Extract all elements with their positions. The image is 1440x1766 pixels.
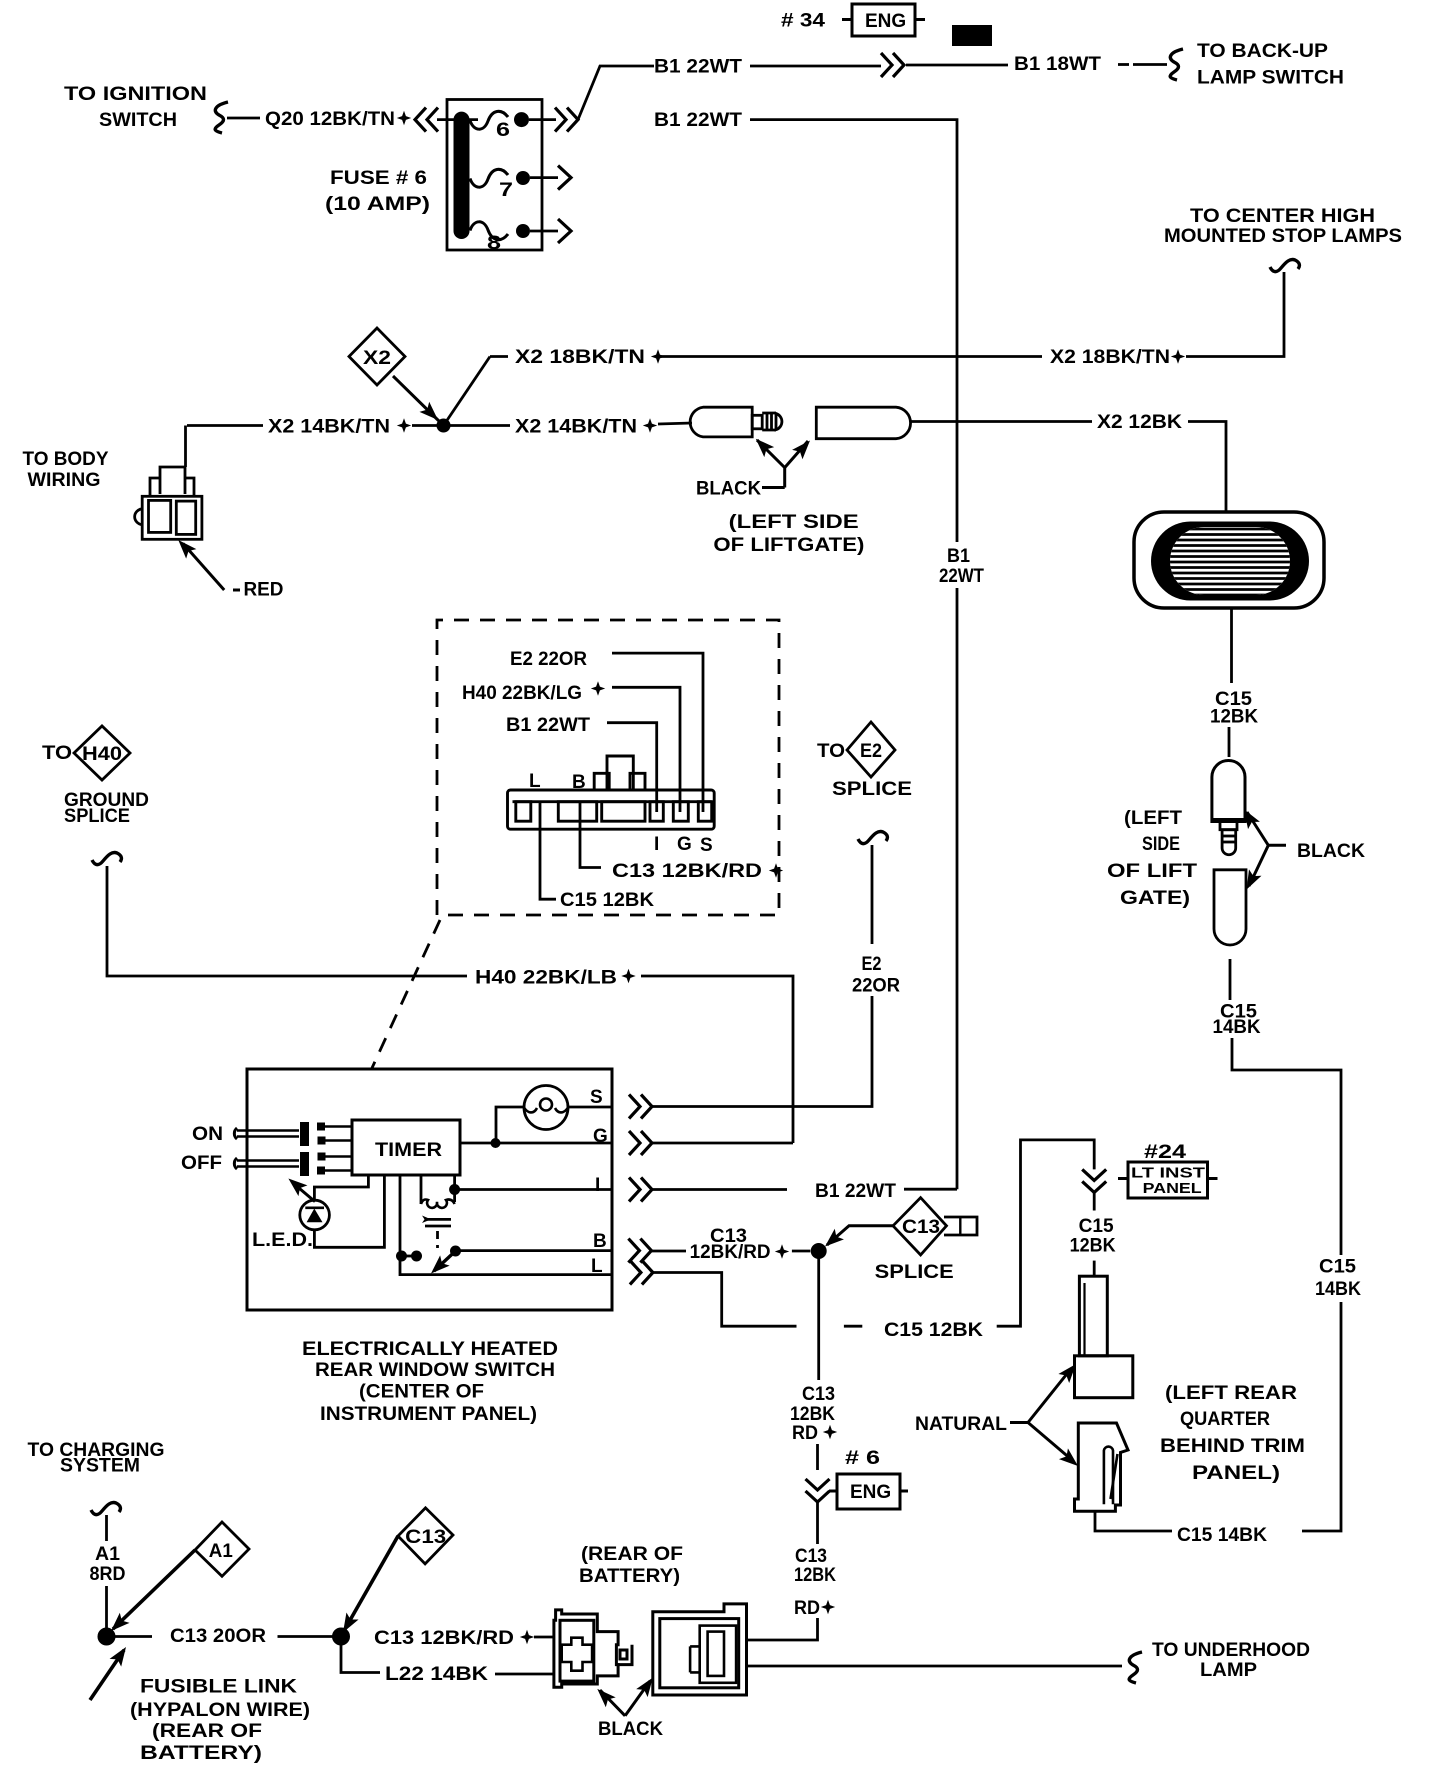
svg-text:OFF: OFF — [181, 1153, 222, 1174]
svg-text:PANEL): PANEL) — [1192, 1463, 1280, 1484]
svg-text:FUSIBLE LINK: FUSIBLE LINK — [140, 1677, 297, 1698]
svg-text:B: B — [593, 1231, 607, 1252]
svg-text:B1 18WT: B1 18WT — [1014, 54, 1101, 75]
svg-text:#24: #24 — [1144, 1142, 1187, 1163]
svg-text:C13 20OR: C13 20OR — [170, 1626, 266, 1647]
svg-text:TIMER: TIMER — [375, 1140, 442, 1161]
svg-text:BATTERY): BATTERY) — [579, 1566, 680, 1587]
svg-text:SYSTEM: SYSTEM — [60, 1456, 140, 1477]
svg-text:BLACK: BLACK — [696, 479, 761, 500]
svg-text:S: S — [700, 835, 713, 856]
svg-text:ELECTRICALLY HEATED: ELECTRICALLY HEATED — [302, 1339, 558, 1360]
svg-text:12BK: 12BK — [790, 1404, 835, 1425]
svg-text:X2 18BK/TN: X2 18BK/TN — [1050, 347, 1170, 368]
svg-text:SPLICE: SPLICE — [875, 1262, 954, 1283]
svg-text:BEHIND TRIM: BEHIND TRIM — [1160, 1436, 1305, 1457]
svg-text:C13: C13 — [405, 1527, 446, 1548]
svg-text:QUARTER: QUARTER — [1180, 1409, 1270, 1430]
svg-text:E2 22OR: E2 22OR — [510, 649, 587, 670]
svg-text:I: I — [654, 834, 659, 855]
svg-text:12BK: 12BK — [1210, 707, 1258, 728]
svg-text:C13: C13 — [802, 1384, 835, 1405]
svg-text:OF LIFTGATE): OF LIFTGATE) — [713, 535, 864, 556]
svg-text:TO IGNITION: TO IGNITION — [64, 84, 207, 105]
svg-text:BATTERY): BATTERY) — [140, 1743, 262, 1764]
svg-text:ENG: ENG — [850, 1482, 891, 1503]
svg-text:BLACK: BLACK — [598, 1719, 663, 1740]
svg-text:A1: A1 — [209, 1541, 233, 1562]
svg-text:(CENTER OF: (CENTER OF — [359, 1382, 484, 1403]
svg-text:B1 22WT: B1 22WT — [654, 110, 742, 131]
svg-text:TO CENTER HIGH: TO CENTER HIGH — [1190, 206, 1375, 227]
svg-text:8: 8 — [487, 233, 501, 254]
svg-text:TO BACK-UP: TO BACK-UP — [1197, 41, 1328, 62]
svg-text:6: 6 — [496, 120, 510, 141]
svg-text:C15: C15 — [1319, 1257, 1356, 1278]
svg-text:TO UNDERHOOD: TO UNDERHOOD — [1152, 1640, 1310, 1661]
svg-text:SPLICE: SPLICE — [832, 779, 912, 800]
svg-text:A1: A1 — [95, 1544, 120, 1565]
svg-text:(10 AMP): (10 AMP) — [325, 194, 430, 215]
svg-text:RD: RD — [794, 1598, 820, 1619]
svg-text:8RD: 8RD — [90, 1564, 126, 1585]
svg-text:ENG: ENG — [865, 11, 906, 32]
svg-text:B1 22WT: B1 22WT — [506, 715, 590, 736]
svg-text:TO: TO — [817, 741, 845, 762]
svg-text:SWITCH: SWITCH — [99, 110, 177, 131]
svg-text:TO BODY: TO BODY — [23, 449, 109, 470]
svg-text:E2: E2 — [860, 741, 882, 762]
svg-text:H40 22BK/LG: H40 22BK/LG — [462, 683, 582, 704]
svg-text:(LEFT REAR: (LEFT REAR — [1165, 1383, 1297, 1404]
svg-text:X2 14BK/TN: X2 14BK/TN — [515, 417, 637, 438]
svg-text:(LEFT: (LEFT — [1124, 808, 1182, 829]
svg-text:PANEL: PANEL — [1143, 1180, 1202, 1197]
svg-text:X2: X2 — [363, 348, 391, 369]
svg-text:TO: TO — [42, 743, 72, 764]
svg-text:SPLICE: SPLICE — [64, 806, 130, 827]
svg-text:GATE): GATE) — [1120, 888, 1190, 909]
svg-text:22OR: 22OR — [852, 976, 900, 997]
svg-text:ON: ON — [192, 1124, 223, 1145]
svg-text:7: 7 — [499, 180, 513, 201]
svg-text:C13 12BK/RD: C13 12BK/RD — [612, 861, 762, 882]
svg-text:Q20 12BK/TN: Q20 12BK/TN — [265, 109, 395, 130]
svg-text:REAR WINDOW SWITCH: REAR WINDOW SWITCH — [315, 1360, 555, 1381]
svg-text:(REAR OF: (REAR OF — [152, 1721, 262, 1742]
svg-text:(LEFT SIDE: (LEFT SIDE — [729, 512, 859, 533]
svg-text:L: L — [591, 1256, 603, 1277]
svg-text:12BK/RD: 12BK/RD — [690, 1242, 771, 1263]
svg-text:BLACK: BLACK — [1297, 841, 1365, 862]
svg-text:C13 12BK/RD: C13 12BK/RD — [374, 1628, 514, 1649]
svg-text:12BK: 12BK — [1070, 1236, 1116, 1257]
svg-text:X2 18BK/TN: X2 18BK/TN — [515, 347, 645, 368]
svg-text:LAMP SWITCH: LAMP SWITCH — [1197, 68, 1344, 89]
svg-text:C15 12BK: C15 12BK — [560, 890, 654, 911]
svg-text:LAMP: LAMP — [1200, 1660, 1257, 1681]
svg-text:H40 22BK/LB: H40 22BK/LB — [475, 968, 617, 989]
svg-text:X2 12BK: X2 12BK — [1097, 412, 1182, 433]
svg-text:C13: C13 — [902, 1217, 940, 1238]
svg-text:RD: RD — [792, 1423, 818, 1444]
svg-text:SIDE: SIDE — [1142, 834, 1180, 855]
svg-text:L.E.D.: L.E.D. — [252, 1230, 313, 1251]
svg-text:MOUNTED STOP LAMPS: MOUNTED STOP LAMPS — [1164, 226, 1402, 247]
svg-text:B1 22WT: B1 22WT — [815, 1181, 896, 1202]
svg-text:B: B — [572, 772, 586, 793]
svg-text:(REAR OF: (REAR OF — [581, 1544, 683, 1565]
svg-text:E2: E2 — [862, 954, 882, 975]
svg-text:S: S — [590, 1087, 603, 1108]
svg-text:FUSE # 6: FUSE # 6 — [330, 168, 427, 189]
svg-text:14BK: 14BK — [1315, 1279, 1361, 1300]
svg-text:L: L — [529, 771, 541, 792]
svg-text:G: G — [593, 1126, 608, 1147]
svg-text:OF LIFT: OF LIFT — [1107, 861, 1197, 882]
svg-text:H40: H40 — [82, 744, 122, 765]
svg-text:14BK: 14BK — [1213, 1017, 1261, 1038]
svg-text:C13: C13 — [795, 1546, 827, 1567]
svg-text:12BK: 12BK — [794, 1565, 836, 1586]
svg-text:C15: C15 — [1079, 1216, 1114, 1237]
svg-text:I: I — [595, 1175, 600, 1196]
svg-text:NATURAL: NATURAL — [915, 1414, 1007, 1435]
svg-text:X2 14BK/TN: X2 14BK/TN — [268, 417, 390, 438]
svg-text:(HYPALON WIRE): (HYPALON WIRE) — [130, 1700, 310, 1721]
svg-text:RED: RED — [244, 580, 284, 601]
svg-text:WIRING: WIRING — [28, 470, 101, 491]
svg-text:C15 12BK: C15 12BK — [884, 1320, 983, 1341]
svg-text:INSTRUMENT PANEL): INSTRUMENT PANEL) — [320, 1404, 537, 1425]
svg-text:C15 14BK: C15 14BK — [1177, 1525, 1267, 1546]
svg-text:22WT: 22WT — [939, 566, 984, 587]
svg-text:B1: B1 — [947, 546, 970, 567]
svg-text:B1 22WT: B1 22WT — [654, 57, 742, 78]
svg-text:# 34: # 34 — [781, 11, 826, 32]
svg-text:G: G — [677, 834, 692, 855]
svg-text:# 6: # 6 — [845, 1448, 880, 1469]
svg-text:L22 14BK: L22 14BK — [385, 1664, 488, 1685]
